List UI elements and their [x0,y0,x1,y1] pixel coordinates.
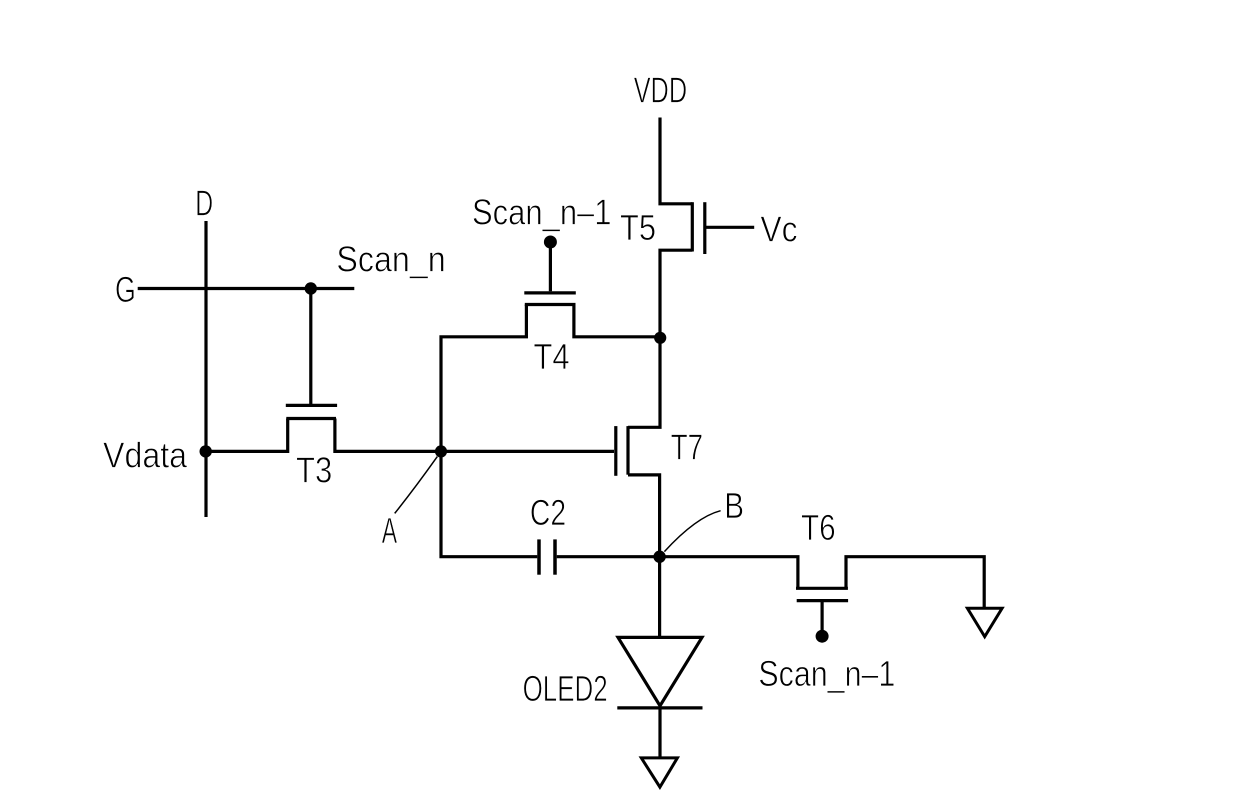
svg-text:T7: T7 [671,427,703,468]
wire T4 gate stub [549,242,552,291]
node B junction dot [653,551,665,563]
svg-text:C2: C2 [530,492,566,533]
transistor T4 [524,293,576,305]
junction dot Vdata on D line [200,445,212,457]
wire node B to T6 drain [660,557,798,589]
svg-text:D: D [195,183,213,224]
wire T5 source down through junction to T7 drain step [628,250,692,427]
node A junction dot [435,445,447,457]
wire T6 gate stub [820,601,823,630]
wire T3 drain to node A to T7 gate [335,419,614,452]
wire T3 gate stub [309,289,312,405]
wire T7 source down to node B [628,475,660,557]
svg-text:G: G [115,269,136,310]
svg-text:T3: T3 [296,450,332,491]
svg-text:VDD: VDD [634,69,687,110]
wire Vdata to T3 source [206,419,288,452]
svg-text:T4: T4 [534,336,570,377]
transistor T5 [692,202,754,254]
wire VDD lead to T5 drain [660,118,692,204]
svg-text:T5: T5 [620,207,656,248]
net Scan_n-1 terminal dot (bottom) [816,630,829,643]
wire D data line [204,221,207,517]
svg-text:Scan_n: Scan_n [336,238,445,279]
svg-text:Scan_n–1: Scan_n–1 [758,653,895,694]
diode OLED2 [617,637,702,708]
junction dot T5/T4/T7 node [654,332,666,344]
wire T4 source lead down to node A [441,305,526,452]
wire node B down to OLED2 anode [658,557,661,638]
transistor T6 [796,588,848,600]
wire C2 to node B [557,555,660,558]
svg-text:OLED2: OLED2 [523,668,608,709]
svg-text:Vc: Vc [760,208,797,249]
svg-text:Scan_n–1: Scan_n–1 [472,192,612,233]
capacitor C2 [539,539,555,574]
wire G gate line [138,287,355,290]
ground symbol (bottom) [641,758,677,787]
net Scan_n-1 terminal dot (top) [544,236,557,249]
wire T4 drain lead to junction [574,305,660,337]
leader line node A [395,457,438,514]
svg-text:T6: T6 [801,507,836,548]
wire OLED2 cathode to ground [658,708,661,758]
svg-text:B: B [724,485,744,526]
ground symbol (right) [967,608,1002,636]
transistor T7 [616,426,628,476]
leader line node B [664,511,720,552]
wire T6 source to ground [846,557,984,609]
wire node A down to C2 [441,451,537,556]
junction dot Scan_n on G line [305,282,317,294]
svg-text:Vdata: Vdata [103,435,188,476]
svg-text:A: A [382,510,397,551]
transistor T3 [286,405,337,418]
